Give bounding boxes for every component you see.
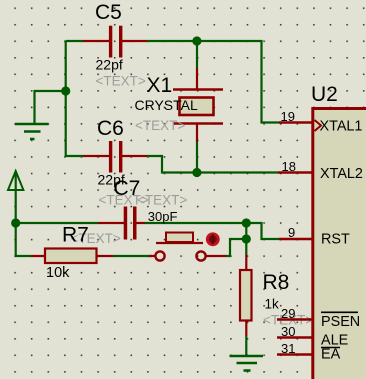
svg-text:<TEXT>: <TEXT>: [135, 118, 185, 133]
svg-text:U2: U2: [311, 83, 338, 106]
svg-text:R7: R7: [62, 224, 89, 247]
svg-text:9: 9: [288, 225, 295, 240]
svg-text:PSEN: PSEN: [321, 314, 360, 330]
svg-text:RST: RST: [321, 232, 350, 248]
svg-text:R8: R8: [263, 271, 290, 294]
svg-text:EA: EA: [321, 347, 341, 363]
svg-text:18: 18: [282, 159, 296, 174]
svg-text:<TEXT>: <TEXT>: [96, 74, 146, 89]
svg-text:10k: 10k: [46, 265, 70, 281]
svg-text:19: 19: [281, 109, 295, 124]
svg-text:X1: X1: [147, 74, 173, 97]
svg-text:C6: C6: [97, 117, 124, 140]
svg-text:22pf: 22pf: [96, 57, 123, 73]
svg-text:22pf: 22pf: [98, 172, 125, 188]
svg-text:31: 31: [281, 341, 295, 356]
svg-text:30: 30: [281, 324, 295, 339]
svg-text:29: 29: [281, 306, 295, 321]
svg-text:CRYSTAL: CRYSTAL: [135, 97, 198, 113]
svg-text:1k: 1k: [265, 297, 280, 312]
svg-text:XTAL2: XTAL2: [320, 166, 363, 182]
svg-text:30pF: 30pF: [148, 209, 178, 224]
svg-text:C5: C5: [95, 1, 122, 24]
svg-text:XTAL1: XTAL1: [320, 119, 363, 135]
svg-text:<TEXT>: <TEXT>: [137, 193, 187, 208]
